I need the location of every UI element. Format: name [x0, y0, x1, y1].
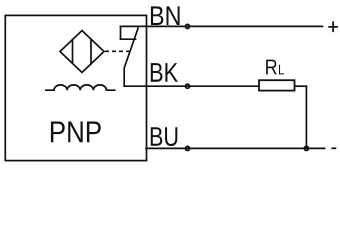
- switch fixed contact tick: [121, 38, 136, 40]
- label BU: [151, 127, 178, 146]
- switch blade: [124, 28, 138, 86]
- terminal node BU: [185, 146, 189, 150]
- wire BK: [124, 85, 259, 87]
- dashed actuation line: [105, 50, 130, 52]
- inductor coil L: [46, 85, 115, 90]
- label PNP: [51, 122, 101, 143]
- wire BN: [121, 25, 323, 27]
- wire BU: [146, 147, 325, 149]
- diamond right chord: [90, 39, 92, 64]
- junction node RL/BU: [304, 146, 308, 150]
- terminal node BK: [185, 84, 189, 88]
- terminal node BN: [185, 24, 189, 28]
- label RL subscript L: [279, 65, 284, 75]
- label RL: [266, 60, 277, 75]
- wire vertical drop to BU: [305, 86, 307, 148]
- minus terminal: [331, 147, 336, 149]
- sensor body box: [5, 15, 146, 160]
- label BK: [151, 63, 178, 82]
- proximity sensor diamond: [60, 31, 104, 73]
- plus terminal: [328, 26, 338, 28]
- resistor RL body: [259, 80, 295, 90]
- diamond left chord: [72, 40, 74, 64]
- switch contact vertical from BN: [120, 26, 122, 39]
- wire resistor to corner: [295, 85, 307, 87]
- label BN: [151, 6, 180, 25]
